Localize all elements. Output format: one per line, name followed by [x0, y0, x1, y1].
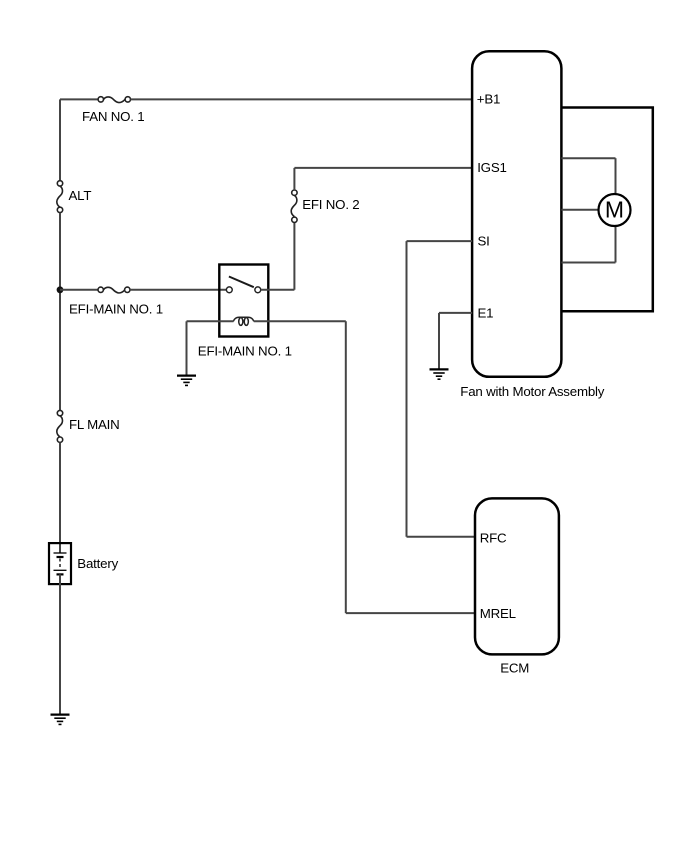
wire: motor feed middle [561, 209, 598, 211]
relay coil [233, 317, 254, 325]
relay EFI-MAIN NO. 1 box [219, 265, 268, 337]
ground (relay coil) [177, 376, 196, 386]
svg-text:RFC: RFC [480, 530, 507, 545]
fuse FAN NO. 1 [98, 97, 130, 103]
svg-text:SI: SI [478, 233, 490, 248]
fuse EFI NO. 2 [291, 190, 297, 223]
wire: corner to IGS1 pin [294, 167, 472, 169]
wire: motor feed top [561, 157, 615, 159]
relay switch blade [229, 277, 254, 288]
wire: left bus middle segment [59, 213, 61, 411]
svg-text:EFI-MAIN NO. 1: EFI-MAIN NO. 1 [198, 344, 292, 359]
ground (E1) [430, 369, 449, 379]
svg-text:Fan with Motor Assembly: Fan with Motor Assembly [460, 384, 604, 399]
wire: MREL drop x=345.8 [345, 321, 347, 613]
motor M1 circle [599, 194, 631, 226]
motor enclosure box [561, 108, 652, 312]
svg-text:+B1: +B1 [477, 91, 500, 106]
fuse EFI-MAIN NO. 1 [98, 287, 130, 293]
battery [49, 543, 71, 584]
wire: coil right toward MREL [254, 320, 346, 322]
svg-text:FL MAIN: FL MAIN [69, 417, 120, 432]
fan with motor assembly box U1 [472, 51, 561, 377]
wire: riser x=294.4 lower segment [293, 223, 295, 290]
node junction at bus / EFI-MAIN branch [57, 286, 64, 293]
wire: E1 pin stub [439, 312, 472, 314]
fusible link ALT [57, 181, 63, 213]
wire: relay switch to EFI NO.2 riser [261, 289, 295, 291]
svg-text:Battery: Battery [77, 556, 118, 571]
wire: relay ground drop x=186.5 [186, 321, 188, 375]
svg-text:E1: E1 [478, 305, 494, 320]
wire: riser upper segment to corner [293, 168, 295, 190]
wire: FL MAIN to battery [59, 443, 61, 554]
wire: EFI-MAIN NO.1 fuse to relay switch contact [130, 289, 226, 291]
svg-text:FAN NO. 1: FAN NO. 1 [82, 109, 144, 124]
wire: SI pin stub [407, 240, 473, 242]
wire: E1 ground drop x=439 [438, 313, 440, 370]
svg-text:IGS1: IGS1 [477, 160, 507, 175]
ECM box U2 [475, 498, 559, 654]
wire: node to EFI-MAIN NO.1 fuse [60, 289, 98, 291]
wire: coil left to ground drop [187, 320, 234, 322]
svg-text:EFI NO. 2: EFI NO. 2 [302, 197, 359, 212]
wire: motor top drop [615, 158, 617, 194]
svg-text:M: M [605, 197, 624, 223]
wire: FAN NO.1 fuse to +B1 pin [131, 98, 473, 100]
wire: motor bottom rise [615, 226, 617, 263]
relay switch contacts [226, 287, 260, 293]
wire: to MREL pin y=613.1 [346, 612, 475, 614]
wire: battery+ bus to FAN NO.1 fuse, y=99.4 [60, 98, 98, 100]
svg-text:ALT: ALT [69, 188, 92, 203]
wire: battery to ground [59, 574, 61, 714]
wire: to RFC pin y=536.8 [407, 536, 476, 538]
svg-text:MREL: MREL [480, 606, 516, 621]
svg-text:ECM: ECM [500, 660, 529, 675]
wire: SI drop x=406.5 [406, 241, 408, 537]
wire: left bus top segment, x=60 [59, 99, 61, 180]
svg-text:EFI-MAIN NO. 1: EFI-MAIN NO. 1 [69, 301, 163, 316]
wire: motor feed bottom [561, 262, 615, 264]
ground (battery negative) [51, 715, 70, 725]
fusible link FL MAIN [57, 410, 63, 442]
